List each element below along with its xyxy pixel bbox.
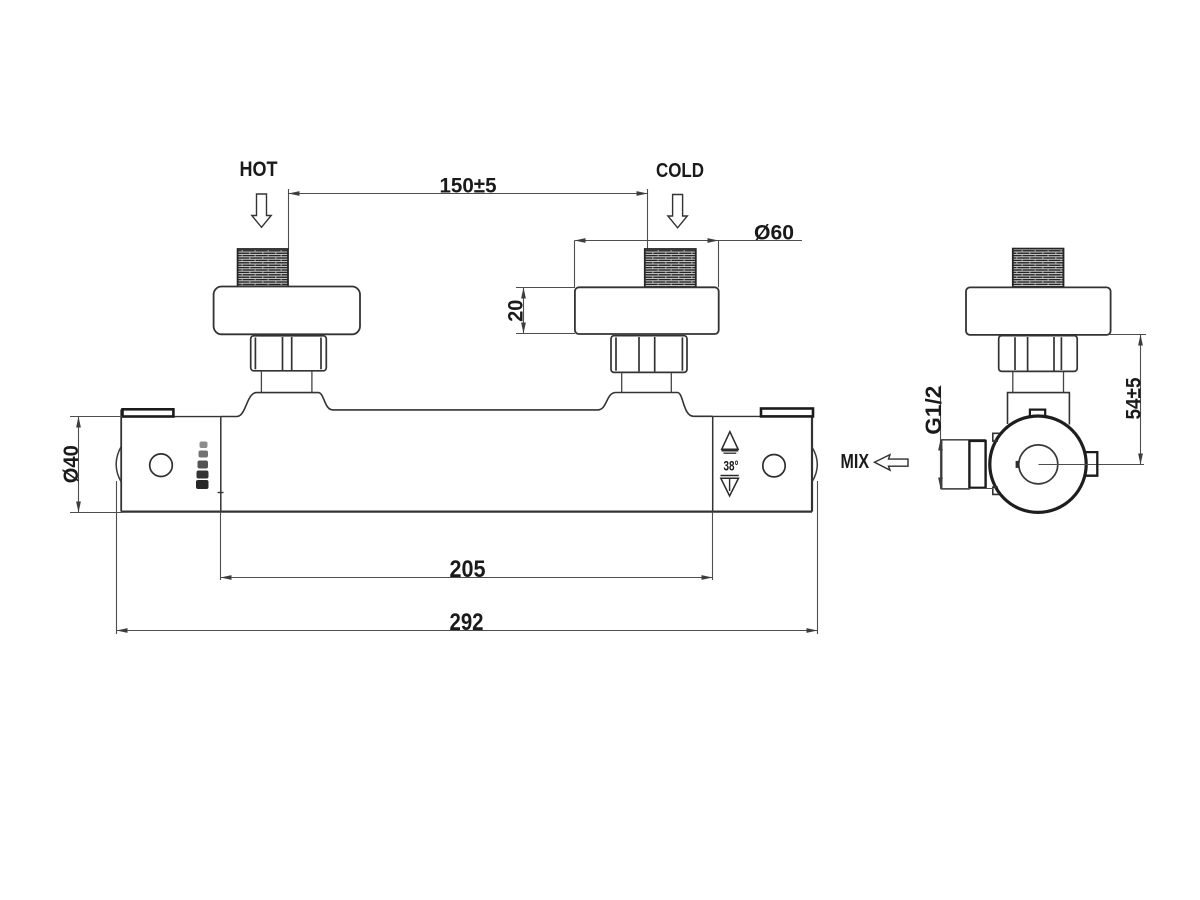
dimension 205 — [221, 512, 713, 580]
cold backnut — [611, 336, 687, 373]
hot inlet thread nipple — [238, 249, 288, 287]
side view flange — [966, 287, 1111, 335]
hot escutcheon flange — [214, 287, 360, 335]
svg-text:38°: 38° — [724, 458, 739, 474]
right cap button — [763, 455, 785, 477]
valve barrel circle — [990, 416, 1086, 512]
outlet ear top — [993, 433, 1000, 441]
outlet ear bottom — [993, 487, 1000, 494]
cold inlet thread nipple — [645, 249, 696, 287]
right cap tab — [761, 409, 813, 417]
hot backnut — [251, 336, 327, 371]
side view backnut — [999, 336, 1077, 372]
mix outlet collar — [969, 441, 985, 488]
bar bottom line — [121, 511, 812, 513]
dimension 292 — [117, 481, 818, 634]
hot flow arrow — [252, 194, 271, 227]
side view thread nipple — [1013, 249, 1064, 287]
svg-text:20: 20 — [505, 300, 528, 322]
barrel right tab — [1085, 452, 1097, 476]
left cap bulge — [116, 447, 121, 483]
dimension 150±5 — [289, 189, 648, 249]
mix outlet stub — [942, 440, 970, 489]
left cap button — [150, 454, 173, 477]
svg-text:292: 292 — [450, 609, 484, 636]
svg-text:G1/2: G1/2 — [921, 386, 946, 435]
svg-text:HOT: HOT — [240, 158, 278, 181]
hot neck — [261, 371, 312, 393]
left end cap — [121, 410, 221, 512]
temperature down triangle — [721, 475, 739, 477]
svg-text:MIX: MIX — [841, 450, 870, 473]
svg-text:Ø40: Ø40 — [60, 445, 83, 483]
cold flow arrow — [668, 195, 687, 228]
cartridge inner circle — [1019, 445, 1058, 484]
right end cap — [713, 416, 812, 511]
dimension 54±5 — [1108, 335, 1146, 465]
side view valve body — [1008, 393, 1070, 425]
cold escutcheon flange — [575, 287, 719, 334]
center line — [1039, 464, 1145, 466]
barrel top tab — [1027, 410, 1047, 417]
dimension 20 — [516, 288, 575, 334]
svg-text:205: 205 — [450, 556, 486, 583]
cold neck — [622, 372, 672, 392]
center tick — [1016, 461, 1019, 468]
svg-text:150±5: 150±5 — [440, 175, 497, 198]
mix flow arrow — [875, 455, 909, 471]
svg-text:54±5: 54±5 — [1123, 377, 1146, 419]
left cap small dash — [218, 492, 224, 494]
temperature up triangle — [722, 432, 738, 450]
svg-text:Ø60: Ø60 — [754, 221, 794, 244]
dimension G1/2 — [941, 385, 994, 489]
dimension Ø40 — [70, 417, 122, 513]
right cap bulge — [812, 447, 817, 482]
left cap markings — [196, 442, 209, 490]
bar top profile with inlet mounds — [221, 393, 713, 417]
svg-text:COLD: COLD — [656, 159, 704, 182]
left cap tab — [123, 409, 174, 416]
dimension Ø60 — [575, 241, 803, 288]
side view neck — [1013, 371, 1064, 392]
